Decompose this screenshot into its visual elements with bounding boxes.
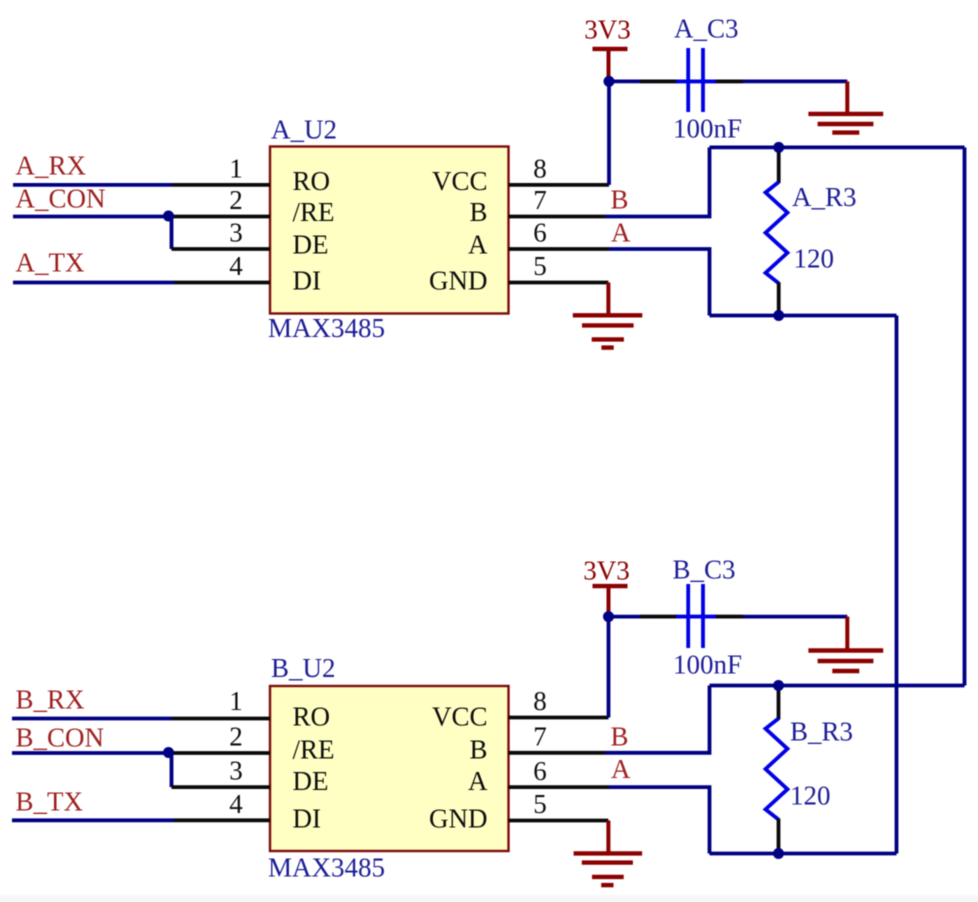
capacitor B_C3 right pin (714, 615, 743, 619)
svg-text:6: 6 (533, 756, 547, 786)
pin 5 stub (B) (509, 819, 609, 823)
svg-text:B_CON: B_CON (16, 722, 105, 752)
svg-text:5: 5 (533, 789, 547, 819)
svg-text:8: 8 (533, 686, 547, 716)
pin 3 stub (172, 247, 271, 251)
svg-text:A_CON: A_CON (16, 184, 106, 214)
IC A_U2 body MAX3485 (270, 147, 509, 314)
pin 4 stub (174, 281, 270, 285)
svg-text:A_TX: A_TX (16, 248, 85, 278)
svg-text:120: 120 (790, 781, 831, 811)
svg-text:B: B (611, 722, 629, 752)
svg-text:8: 8 (533, 154, 547, 184)
svg-text:3: 3 (229, 756, 243, 786)
svg-text:RO: RO (293, 702, 331, 732)
svg-text:B_U2: B_U2 (271, 653, 336, 683)
resistor A_R3 bottom lead (777, 282, 781, 315)
wire B net to bus (B section) (605, 686, 710, 753)
svg-text:4: 4 (229, 789, 243, 819)
svg-text:1: 1 (229, 686, 243, 716)
wire VCC vertical (607, 81, 611, 184)
wire A net to bottom bus (609, 249, 710, 316)
junction dot A_R3 bottom (773, 310, 784, 321)
svg-text:A_R3: A_R3 (792, 182, 857, 212)
svg-text:2: 2 (229, 185, 243, 215)
pin 5 stub (509, 281, 609, 285)
junction dot A_CON (163, 211, 174, 222)
pin 1 stub (172, 183, 270, 187)
vertical bus A-net A to B section (895, 316, 899, 854)
pin 2 stub (B) (168, 751, 270, 755)
wire VCC vertical (B) (607, 617, 611, 718)
svg-text:1: 1 (229, 154, 243, 184)
svg-text:A_RX: A_RX (16, 151, 87, 181)
svg-text:6: 6 (533, 218, 547, 248)
bottom bus wire (A net B section) (710, 852, 897, 856)
svg-text:100nF: 100nF (673, 114, 742, 144)
ground symbol (B_C3) (845, 617, 849, 651)
svg-text:VCC: VCC (432, 702, 488, 732)
svg-text:VCC: VCC (432, 166, 488, 196)
svg-text:B_RX: B_RX (16, 685, 86, 715)
svg-text:B_C3: B_C3 (673, 555, 736, 585)
svg-text:5: 5 (533, 251, 547, 281)
svg-text:MAX3485: MAX3485 (268, 852, 385, 882)
pin 8 stub (B) (509, 716, 609, 720)
wire A net to bottom bus (B section) (609, 787, 710, 853)
pin 1 stub (B) (172, 717, 270, 721)
right vertical bus B-net A to B section (963, 147, 967, 685)
svg-text:B_TX: B_TX (16, 786, 84, 816)
svg-text:GND: GND (429, 804, 488, 834)
resistor B_R3 zigzag (766, 719, 788, 820)
wire A_CON to pin2 (13, 215, 168, 219)
svg-text:B: B (469, 197, 487, 227)
svg-text:DI: DI (293, 804, 322, 834)
pin 7 stub (B) (509, 751, 606, 755)
junction dot 3V3 node (B) (603, 611, 614, 622)
capacitor B_C3 left pin (640, 615, 678, 619)
junction dot B_R3 bottom (773, 848, 784, 859)
wire A_TX to pin4 (13, 281, 174, 285)
wire B net to bus (605, 147, 710, 216)
resistor B_R3 top lead (777, 686, 781, 720)
svg-text:/RE: /RE (293, 735, 335, 765)
svg-text:100nF: 100nF (673, 650, 742, 680)
svg-text:A: A (468, 766, 488, 796)
svg-text:DE: DE (293, 766, 329, 796)
wire B_TX to pin4 (12, 818, 174, 822)
junction dot B_R3 top (773, 680, 784, 691)
junction dot B_CON (163, 747, 174, 758)
svg-text:DI: DI (293, 266, 322, 296)
svg-text:7: 7 (533, 721, 547, 751)
junction dot A_R3 top (773, 142, 784, 153)
capacitor A_C3 plates (676, 80, 716, 84)
wire B_CON to pin2 (12, 751, 168, 755)
pin 8 stub (509, 183, 610, 187)
pin 3 stub (B) (172, 785, 271, 789)
top bus wire (B net A section) (710, 145, 965, 149)
wire B_CON branch down to pin3 (170, 752, 174, 788)
capacitor A_C3 left pin (640, 80, 678, 84)
capacitor B_C3 plates (676, 615, 716, 619)
svg-text:GND: GND (429, 266, 488, 296)
svg-text:A_U2: A_U2 (271, 115, 337, 145)
svg-text:A: A (611, 754, 631, 784)
svg-text:B: B (611, 185, 629, 215)
pin 6 stub (509, 247, 610, 251)
svg-text:3V3: 3V3 (583, 556, 630, 586)
svg-text:3V3: 3V3 (584, 15, 631, 45)
junction dot 3V3 node (604, 76, 615, 87)
top bus wire (B net B section) (710, 684, 965, 688)
svg-text:DE: DE (293, 230, 329, 260)
pin 4 stub (B) (174, 818, 270, 822)
power ground symbol (A_U2 GND) (606, 283, 610, 316)
power ground symbol (B_U2 GND) (606, 821, 610, 854)
svg-text:A: A (468, 230, 488, 260)
wire B_RX to pin1 (12, 717, 172, 721)
resistor B_R3 bottom lead (777, 819, 781, 854)
svg-text:2: 2 (229, 721, 243, 751)
svg-text:RO: RO (293, 166, 331, 196)
bottom bus wire (A net A section) (710, 314, 897, 318)
svg-text:B: B (469, 735, 487, 765)
svg-text:B_R3: B_R3 (790, 717, 853, 747)
pin 6 stub (B) (509, 785, 610, 789)
svg-text:7: 7 (533, 185, 547, 215)
resistor A_R3 zigzag (766, 182, 788, 283)
power symbol 3V3 (A) (593, 47, 628, 51)
wire 3V3 node to capacitor and ground (B) (609, 615, 848, 619)
IC B_U2 body MAX3485 (270, 686, 509, 851)
svg-text:3: 3 (229, 218, 243, 248)
wire A_RX to pin1 (13, 183, 172, 187)
resistor A_R3 top lead (777, 147, 781, 183)
svg-text:/RE: /RE (293, 197, 335, 227)
wire 3V3 node to capacitor and ground (609, 80, 847, 84)
pin 7 stub (509, 215, 606, 219)
svg-text:4: 4 (229, 251, 243, 281)
power symbol 3V3 (B) (593, 584, 628, 588)
svg-text:MAX3485: MAX3485 (268, 313, 385, 343)
svg-text:A_C3: A_C3 (674, 14, 739, 44)
capacitor A_C3 right pin (714, 80, 743, 84)
pin 2 stub (168, 215, 270, 219)
ground symbol (A_C3) (845, 81, 849, 114)
wire A_CON branch down to pin3 (170, 215, 174, 249)
svg-text:A: A (611, 218, 631, 248)
svg-text:120: 120 (794, 244, 835, 274)
